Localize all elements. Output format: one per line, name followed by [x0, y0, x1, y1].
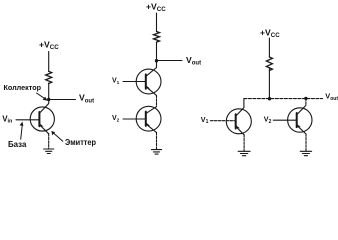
- svg-text:Эмиттер: Эмиттер: [65, 138, 96, 147]
- svg-text:База: База: [8, 139, 27, 149]
- svg-text:Коллектор: Коллектор: [4, 83, 42, 92]
